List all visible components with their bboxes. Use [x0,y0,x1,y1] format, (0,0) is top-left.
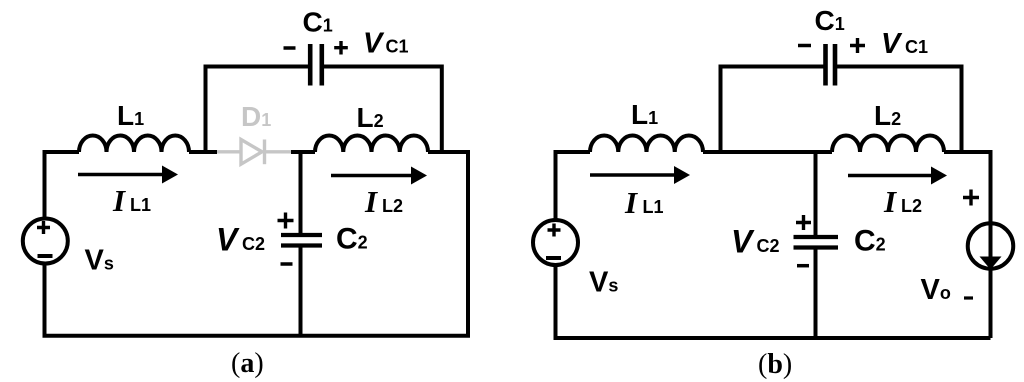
svg-text:C2: C2 [242,234,265,254]
svg-text:L2: L2 [382,196,403,216]
svg-text:(a): (a) [231,348,264,379]
svg-text:L2: L2 [901,196,922,216]
svg-text:C2: C2 [757,236,780,256]
svg-text:V: V [881,28,903,60]
svg-text:V: V [216,222,240,258]
svg-text:L1: L1 [643,197,664,217]
svg-text:L1: L1 [130,195,151,215]
svg-text:(b): (b) [758,349,792,380]
svg-text:C1: C1 [386,37,409,57]
svg-text:I: I [883,184,897,219]
svg-text:V: V [731,224,755,260]
svg-text:C1: C1 [905,37,928,57]
svg-text:I: I [112,183,126,218]
svg-text:V: V [363,28,385,60]
svg-text:I: I [364,184,378,219]
svg-text:I: I [624,185,638,220]
